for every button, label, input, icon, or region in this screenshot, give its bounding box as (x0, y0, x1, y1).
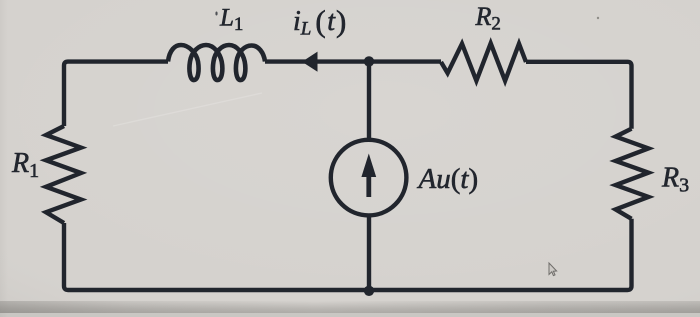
current source arrow shaft (366, 174, 371, 197)
node junction bottom (364, 286, 374, 296)
speck (597, 17, 599, 19)
node junction top (364, 56, 374, 66)
resistor R3 (616, 129, 649, 219)
resistor R1 (46, 126, 81, 223)
current direction arrow iL (302, 52, 318, 72)
wire top-left segment (64, 62, 168, 126)
current source arrow head (361, 154, 376, 178)
wire mid vertical upper (367, 62, 371, 140)
resistor R2 (441, 43, 526, 81)
wire right-bottom segment (64, 219, 632, 290)
inductor L1 (168, 45, 265, 80)
mouse cursor (549, 263, 557, 276)
wire mid vertical lower (367, 216, 371, 291)
svg-text:Au(t): Au(t) (417, 163, 479, 195)
faint scratch (113, 93, 262, 126)
current source U1 circle (331, 140, 407, 216)
wire top-right segment (526, 62, 632, 129)
wire top: inductor-right to R2-left (265, 59, 441, 63)
label L1 (11, 2, 689, 197)
